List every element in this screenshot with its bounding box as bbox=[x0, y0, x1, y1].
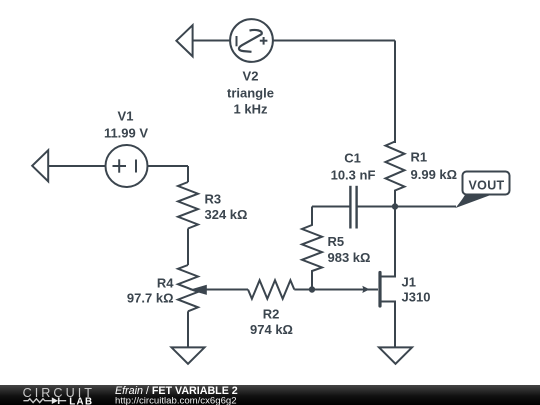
svg-text:R1: R1 bbox=[411, 150, 428, 165]
svg-text:LAB: LAB bbox=[69, 396, 93, 405]
node junction (drain node) bbox=[392, 203, 398, 209]
potentiometer R4 bbox=[178, 265, 248, 311]
svg-text:J1: J1 bbox=[402, 275, 416, 290]
wire bbox=[148, 165, 189, 167]
wire bbox=[187, 166, 189, 182]
svg-text:J310: J310 bbox=[402, 290, 431, 305]
wire bbox=[187, 311, 189, 347]
wire bbox=[273, 40, 395, 42]
svg-text:983 kΩ: 983 kΩ bbox=[328, 250, 371, 265]
wire bbox=[187, 229, 189, 266]
ground (below J1 source) bbox=[379, 347, 412, 363]
svg-text:10.3 nF: 10.3 nF bbox=[331, 168, 376, 183]
capacitor C1 bbox=[312, 186, 395, 229]
footer bar bbox=[0, 385, 540, 405]
wire bbox=[395, 206, 456, 208]
wire bbox=[394, 41, 396, 144]
transistor J1 (JFET) bbox=[362, 207, 395, 348]
resistor R3 bbox=[178, 182, 198, 229]
ground (left of V2) bbox=[176, 25, 192, 56]
svg-text:9.99 kΩ: 9.99 kΩ bbox=[411, 167, 458, 182]
svg-text:V2: V2 bbox=[243, 69, 259, 84]
svg-text:11.99 V: 11.99 V bbox=[104, 126, 148, 141]
resistor R5 bbox=[302, 207, 322, 290]
svg-text:R5: R5 bbox=[328, 234, 345, 249]
wire bbox=[193, 40, 231, 42]
svg-text:VOUT: VOUT bbox=[469, 178, 505, 192]
resistor R1 bbox=[386, 142, 405, 207]
footer text bbox=[115, 385, 238, 405]
svg-text:R2: R2 bbox=[263, 307, 280, 322]
svg-text:97.7 kΩ: 97.7 kΩ bbox=[127, 291, 174, 306]
svg-text:C1: C1 bbox=[344, 151, 361, 166]
node junction (gate node) bbox=[309, 286, 315, 292]
wire bbox=[48, 165, 105, 167]
svg-text:triangle: triangle bbox=[227, 86, 274, 101]
svg-text:324 kΩ: 324 kΩ bbox=[205, 207, 248, 222]
resistor R2 bbox=[248, 280, 294, 299]
wire (gate) bbox=[312, 289, 378, 291]
svg-text:http://circuitlab.com/cx6g6g2: http://circuitlab.com/cx6g6g2 bbox=[115, 395, 237, 405]
svg-text:R3: R3 bbox=[205, 192, 222, 207]
VOUT flag bbox=[456, 172, 510, 209]
svg-text:1 kHz: 1 kHz bbox=[234, 102, 268, 117]
svg-text:R4: R4 bbox=[157, 276, 174, 291]
ground (left of V1) bbox=[32, 150, 48, 181]
voltage source V1 bbox=[106, 145, 148, 187]
svg-text:V1: V1 bbox=[118, 109, 134, 124]
ground (below R4) bbox=[172, 347, 205, 363]
wire bbox=[294, 289, 312, 291]
svg-text:974 kΩ: 974 kΩ bbox=[250, 322, 293, 337]
CircuitLab logo bbox=[23, 386, 95, 405]
voltage source V2 bbox=[230, 19, 273, 62]
